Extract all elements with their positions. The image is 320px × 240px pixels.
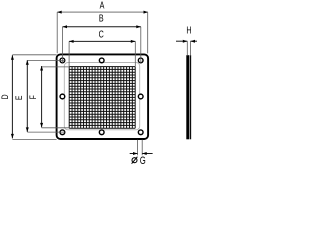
dimension F extension lines — [42, 67, 70, 128]
dimension D line — [11, 55, 13, 138]
dimension A line — [57, 11, 148, 13]
inner frame around mesh — [64, 63, 139, 130]
side view: flange sheet line — [190, 55, 192, 139]
dimension F line — [41, 66, 43, 127]
side view: panel profile — [186, 55, 189, 139]
dimension E extension lines — [27, 60, 65, 132]
svg-text:F: F — [28, 95, 38, 99]
svg-text:C: C — [99, 28, 105, 40]
svg-text:A: A — [100, 0, 105, 11]
dimension D extension lines — [12, 55, 56, 140]
svg-text:H: H — [186, 25, 191, 36]
dimension E line — [26, 60, 28, 132]
svg-text:B: B — [99, 12, 104, 24]
dimension C line — [69, 40, 135, 42]
svg-text:D: D — [0, 94, 10, 99]
dimension B extension lines — [63, 27, 141, 63]
dimension G extension lines — [138, 140, 143, 155]
label G with diameter symbol — [132, 158, 137, 163]
svg-text:G: G — [140, 155, 146, 166]
dimension H extension lines — [187, 41, 190, 55]
dimension B line — [63, 26, 141, 28]
front view: plate outline — [57, 54, 149, 139]
dimension A extension lines — [57, 12, 148, 53]
dimension C extension lines — [69, 41, 135, 66]
dimension H leader lines — [176, 40, 187, 42]
mounting holes (corner + mid-edge), diameter G — [60, 58, 65, 63]
svg-text:E: E — [14, 96, 24, 100]
mesh grid — [69, 67, 135, 129]
dimension G leader lines — [130, 153, 138, 155]
